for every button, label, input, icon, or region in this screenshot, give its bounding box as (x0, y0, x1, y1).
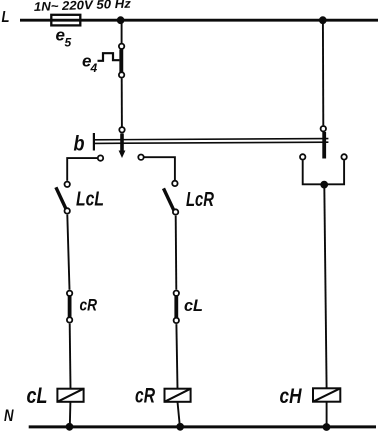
wire contact cL to coil cR (176, 324, 177, 389)
wire junction to e4 (121, 20, 123, 43)
svg-text:N: N (4, 406, 14, 425)
contact b right throw terminal (138, 155, 143, 160)
wire coil cH to N (326, 402, 328, 427)
label LcR (186, 188, 214, 211)
svg-text:4: 4 (90, 61, 98, 75)
svg-text:cL: cL (184, 297, 203, 315)
junction coil cL / N (66, 423, 74, 431)
svg-text:LcL: LcL (76, 188, 104, 211)
wire b right throw to LcR (144, 157, 175, 180)
limit switch LcR (164, 181, 179, 215)
svg-text:cH: cH (280, 385, 303, 408)
wire coil cR to N (178, 402, 180, 427)
wire e4 to contact b (121, 79, 123, 127)
label e5 (56, 25, 72, 49)
label cL (interlock contact) (184, 297, 203, 315)
junction L / e4 branch (117, 16, 125, 24)
label cR (interlock contact) (80, 296, 98, 314)
wire coil cL to N (69, 402, 72, 427)
svg-text:cR: cR (135, 383, 155, 407)
label e4 (82, 51, 98, 75)
coil cH (313, 388, 340, 401)
net label N (4, 406, 14, 425)
wire bH junction to coil cH (324, 185, 326, 388)
switch e4 (closed contact) (119, 44, 124, 78)
contact b common terminal (119, 127, 124, 132)
wire L bus (20, 19, 378, 22)
junction coil cR / N (176, 423, 184, 431)
interlock contact cL (closed) (174, 291, 179, 324)
wire N bus (29, 425, 376, 428)
label cH (coil) (280, 385, 303, 408)
contact bH left throw terminal (300, 154, 305, 159)
coil cL (57, 389, 83, 402)
contact b left throw terminal (98, 155, 103, 160)
wire bH throws joined (303, 160, 344, 184)
coil cR (165, 389, 191, 402)
label LcL (76, 188, 104, 211)
supply label 1N~ 220V 50Hz (34, 0, 132, 14)
junction bH output (320, 181, 328, 189)
interlock contact cR (closed) (67, 291, 72, 323)
wire LcL to contact cR (67, 215, 69, 290)
contact bH blade (322, 132, 326, 159)
mechanical linkage double line (94, 139, 328, 144)
contact bH right throw terminal (341, 154, 346, 159)
svg-text:L: L (2, 9, 10, 26)
limit switch LcL (56, 182, 70, 214)
svg-text:1N~ 220V 50 Hz: 1N~ 220V 50 Hz (34, 0, 132, 14)
actuator e4 (98, 53, 120, 61)
fuse e5 (51, 15, 80, 26)
junction L / cH branch (319, 16, 327, 24)
contact bH common terminal (321, 126, 326, 131)
label b (74, 133, 85, 156)
wire b left throw to LcL (67, 158, 97, 181)
wire contact cR to coil cL (69, 324, 72, 389)
svg-text:cR: cR (80, 296, 98, 314)
svg-text:LcR: LcR (186, 188, 214, 211)
contact b blade with arrow (119, 134, 126, 159)
svg-text:cL: cL (27, 383, 48, 408)
svg-text:5: 5 (65, 36, 72, 50)
label cR (coil) (135, 383, 155, 407)
svg-text:b: b (74, 133, 85, 156)
net label L (2, 9, 10, 26)
junction coil cH / N (323, 423, 331, 431)
linkage end stop (93, 133, 95, 151)
label cL (coil) (27, 383, 48, 408)
wire LcR to contact cL (175, 216, 178, 290)
wire L to contact bH (322, 21, 324, 125)
